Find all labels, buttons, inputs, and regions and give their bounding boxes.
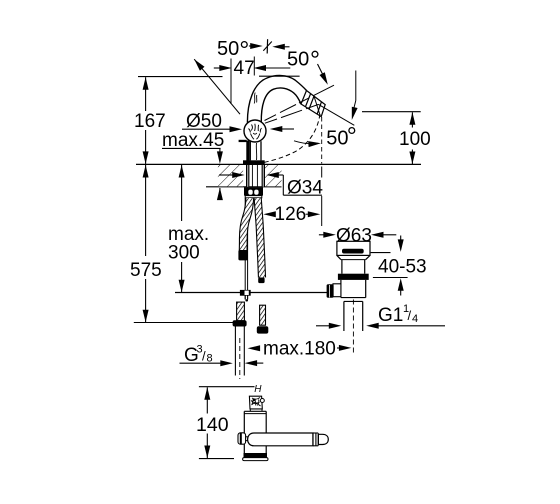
svg-text:140: 140 [196, 414, 229, 436]
svg-text:/: / [202, 349, 206, 364]
svg-text:8: 8 [207, 353, 213, 365]
svg-text:max.45: max.45 [162, 130, 224, 151]
svg-text:Ø50: Ø50 [186, 111, 222, 132]
svg-text:100: 100 [399, 129, 431, 150]
svg-text:300: 300 [168, 243, 200, 264]
svg-text:126: 126 [275, 204, 307, 225]
svg-text:4: 4 [412, 313, 418, 325]
svg-text:G1: G1 [378, 305, 403, 326]
svg-text:max.180: max.180 [263, 339, 336, 360]
svg-text:167: 167 [134, 111, 166, 132]
svg-text:Ø34: Ø34 [287, 178, 323, 199]
svg-text:/: / [408, 308, 412, 323]
svg-text:50: 50 [326, 128, 348, 150]
svg-text:50: 50 [287, 49, 309, 71]
svg-text:47: 47 [234, 58, 255, 79]
svg-text:50: 50 [217, 38, 239, 60]
svg-text:40-53: 40-53 [378, 257, 427, 278]
svg-text:Ø63: Ø63 [336, 226, 372, 247]
svg-text:575: 575 [130, 260, 162, 281]
svg-text:H: H [254, 384, 262, 395]
